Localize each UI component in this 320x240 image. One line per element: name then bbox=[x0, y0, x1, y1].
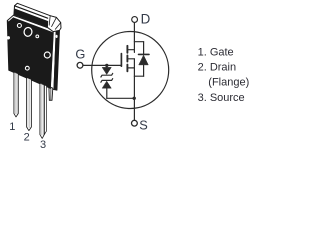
terminal S bbox=[132, 120, 138, 126]
body diode D1 triangle bbox=[139, 55, 148, 65]
lead 3 (source leg) bbox=[40, 83, 47, 138]
zener ZD2 cathode bar bbox=[101, 79, 113, 83]
wire gate lead bbox=[83, 64, 121, 66]
wire diode bottom rail bbox=[134, 75, 143, 77]
package fin front top edge bbox=[15, 6, 48, 18]
svg-text:3. Source: 3. Source bbox=[198, 92, 245, 104]
svg-text:D: D bbox=[141, 11, 151, 26]
zener ZD2 wire bbox=[106, 88, 108, 98]
svg-text:S: S bbox=[139, 118, 148, 133]
package bottom step inner line bbox=[50, 88, 52, 100]
package small dimple left bbox=[17, 24, 21, 28]
pin list text bbox=[198, 47, 250, 105]
package fin front band bbox=[14, 9, 48, 28]
package bottom step bbox=[49, 87, 53, 101]
schematic circle outline bbox=[92, 32, 169, 109]
package TO-3P body bbox=[7, 3, 61, 100]
package corner wedge line bbox=[9, 16, 14, 21]
package right side dark band bbox=[54, 29, 60, 90]
package small dimple bottom bbox=[25, 66, 29, 70]
svg-text:2: 2 bbox=[24, 132, 30, 144]
svg-text:2. Drain: 2. Drain bbox=[198, 62, 237, 74]
package small dimple right bbox=[36, 35, 39, 38]
wire drain vertical bbox=[133, 23, 135, 53]
lead 2 (drain leg) bbox=[27, 78, 32, 131]
package fin silhouette bbox=[14, 3, 61, 31]
svg-text:1. Gate: 1. Gate bbox=[198, 47, 234, 59]
junction gate-zener bbox=[105, 64, 108, 67]
svg-text:G: G bbox=[75, 47, 85, 62]
package right side highlight strip bbox=[50, 29, 56, 89]
lead 1 (gate leg) bbox=[14, 72, 18, 117]
zener ZD2 triangle bbox=[102, 81, 111, 88]
transistor Q1 gate electrode bbox=[120, 54, 122, 67]
zener ZD1 triangle bbox=[102, 67, 111, 74]
package mounting hole bbox=[23, 27, 32, 37]
svg-text:(Flange): (Flange) bbox=[208, 77, 249, 89]
body diode D1 cathode bar bbox=[139, 53, 150, 55]
zener ZD1 cathode bar bbox=[101, 73, 113, 77]
package fin end facet lines bbox=[49, 16, 61, 30]
wire zener bottom rail bbox=[107, 97, 135, 99]
wire drain top rail bbox=[134, 41, 143, 43]
wire drain to channel bbox=[128, 49, 134, 51]
wire body link bbox=[128, 58, 134, 60]
wire source vertical bbox=[133, 59, 135, 121]
svg-text:3: 3 bbox=[40, 139, 46, 151]
package ejector ring right bbox=[44, 52, 50, 58]
package top face strip bbox=[14, 17, 53, 32]
transistor Q1 channel bar top bbox=[126, 46, 128, 53]
transistor Q1 channel bar bottom bbox=[126, 65, 128, 72]
svg-text:1: 1 bbox=[9, 121, 15, 133]
terminal D bbox=[132, 17, 138, 23]
transistor Q1 channel bar middle bbox=[126, 55, 128, 61]
package left edge notch bbox=[7, 36, 10, 39]
junction source-rail bbox=[133, 97, 136, 100]
body diode D1 wire bbox=[143, 42, 145, 76]
zener ZD1 wire bbox=[106, 65, 108, 67]
wire source link bbox=[128, 67, 134, 69]
terminal G bbox=[77, 62, 83, 68]
package side band mark bbox=[56, 35, 58, 38]
package front face bbox=[7, 14, 55, 88]
